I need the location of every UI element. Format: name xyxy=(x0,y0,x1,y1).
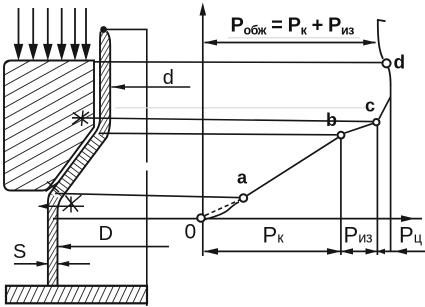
segment b to c xyxy=(345,124,373,133)
lower bend pointer line xyxy=(39,205,84,207)
kink mark on tube at chamfer end xyxy=(46,181,61,192)
projection line die top to point d xyxy=(94,61,382,64)
svg-text:0: 0 xyxy=(185,221,197,244)
kink mark X1 (upper bend) xyxy=(72,111,89,127)
tube curled rim ball xyxy=(100,26,107,33)
faint artifact line under formula xyxy=(228,37,360,39)
dimension P_obzh double arrow xyxy=(205,42,376,44)
point a xyxy=(240,194,248,202)
point d xyxy=(382,59,390,67)
y axis xyxy=(202,13,204,256)
svg-text:c: c xyxy=(365,96,375,116)
point b xyxy=(338,132,345,139)
dimension D arrow xyxy=(59,246,170,248)
P_c left arrow xyxy=(395,248,408,254)
segment a to b xyxy=(247,138,337,196)
tube wall angled section hatch xyxy=(50,133,108,199)
tube wall lower section hatch xyxy=(48,194,61,285)
svg-text:b: b xyxy=(326,110,337,130)
P_iz right arrow xyxy=(366,248,378,254)
die (hatched punch block) xyxy=(4,61,94,191)
dashed chord 0 to a xyxy=(205,200,240,216)
point c xyxy=(373,119,379,125)
P_k right arrow + P_iz left arrow xyxy=(327,248,341,255)
projection line to point a xyxy=(55,193,239,197)
projection line rim xyxy=(107,28,148,30)
vertical from c down xyxy=(376,125,378,255)
svg-text:D: D xyxy=(99,223,113,245)
tube inner edge xyxy=(48,32,101,286)
solid curve 0 to a xyxy=(205,202,240,220)
bottom dimension line xyxy=(205,250,425,252)
svg-text:a: a xyxy=(237,168,248,188)
pressure arrows on die top xyxy=(15,8,90,58)
curve d to vertical xyxy=(388,68,390,87)
centerline xyxy=(146,29,148,163)
svg-text:d: d xyxy=(394,53,406,74)
branch from vertical to c xyxy=(379,97,390,119)
svg-text:S: S xyxy=(13,241,26,263)
vertical from b down xyxy=(340,138,342,255)
P_k left arrow xyxy=(204,248,218,255)
tube outer edge xyxy=(58,32,111,286)
projection line to point c xyxy=(72,118,372,122)
base plate xyxy=(6,286,147,304)
point 0 xyxy=(197,214,205,222)
segment above d with top tick xyxy=(378,20,383,59)
tube wall upper section hatch xyxy=(95,32,110,138)
kink mark X2 (lower bend) xyxy=(63,195,82,213)
svg-text:d: d xyxy=(163,67,174,89)
dimension d arrow xyxy=(112,86,191,88)
vertical from d curve down xyxy=(390,85,392,252)
projection line to point b xyxy=(99,133,337,135)
dimension S arrows xyxy=(14,263,47,265)
x axis xyxy=(53,218,422,220)
faint artifact line mid xyxy=(115,107,375,109)
